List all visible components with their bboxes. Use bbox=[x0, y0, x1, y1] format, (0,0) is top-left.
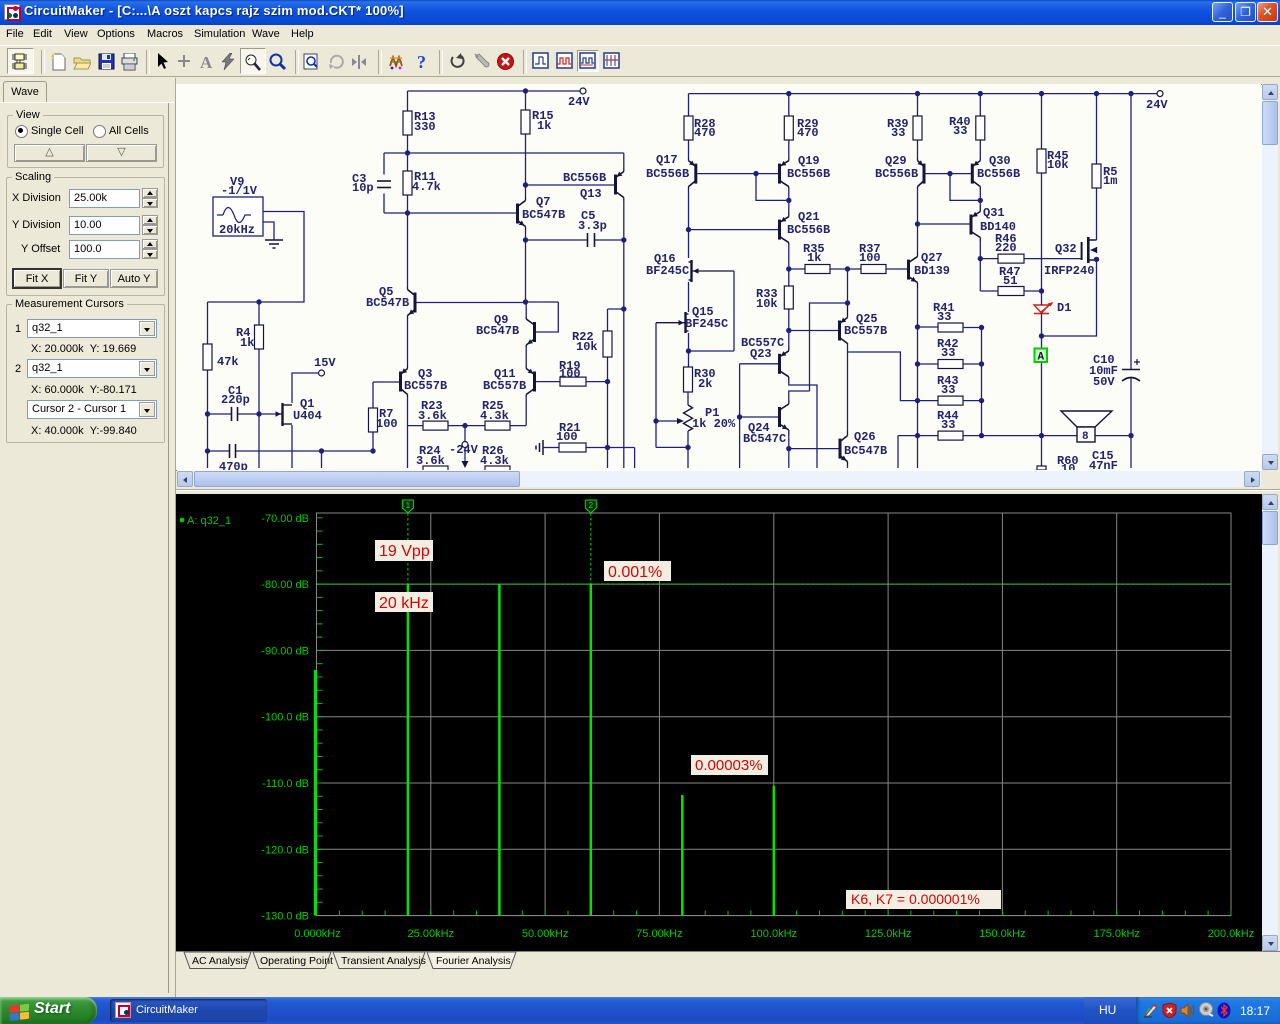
wire bbox=[788, 434, 790, 468]
node bbox=[605, 379, 610, 384]
node bbox=[1039, 288, 1044, 293]
Wave tab bbox=[3, 81, 47, 103]
node bbox=[947, 171, 952, 176]
resistor R30 bbox=[684, 367, 716, 392]
svg-text:2: 2 bbox=[589, 501, 594, 510]
svg-text:20 kHz: 20 kHz bbox=[379, 595, 429, 612]
transistor Q26 bbox=[839, 430, 888, 465]
analysis tabs bbox=[176, 951, 1280, 972]
svg-text:Q23: Q23 bbox=[750, 347, 772, 361]
svg-text:2k: 2k bbox=[698, 377, 712, 391]
node bbox=[370, 448, 375, 453]
transistor Q23 bbox=[741, 336, 789, 380]
title bar bbox=[0, 0, 1280, 25]
ground bbox=[263, 222, 283, 248]
svg-text:-80.00 dB: -80.00 dB bbox=[261, 579, 309, 591]
svg-text:-24V: -24V bbox=[449, 443, 479, 457]
svg-text:33: 33 bbox=[941, 418, 955, 432]
svg-text:BD139: BD139 bbox=[914, 264, 950, 278]
toolbar bbox=[0, 45, 1280, 77]
wire bbox=[656, 447, 688, 468]
svg-text:1k: 1k bbox=[807, 251, 821, 265]
svg-text:Q7: Q7 bbox=[536, 195, 550, 209]
wire bbox=[655, 323, 657, 448]
svg-text:470: 470 bbox=[797, 126, 819, 140]
svg-text:Q13: Q13 bbox=[580, 187, 602, 201]
node bbox=[686, 348, 691, 353]
svg-text:125.0kHz: 125.0kHz bbox=[865, 928, 911, 940]
resistor R5 bbox=[1092, 94, 1117, 240]
node bbox=[1039, 91, 1044, 96]
wire Q26 base bbox=[789, 448, 839, 450]
transistor Q31 bbox=[970, 206, 1017, 241]
wire bbox=[688, 189, 690, 258]
svg-text:BC556B: BC556B bbox=[646, 167, 689, 181]
svg-text:19 Vpp: 19 Vpp bbox=[379, 543, 430, 560]
wire bbox=[607, 382, 609, 448]
resistor R40 bbox=[949, 94, 985, 158]
svg-text:200.0kHz: 200.0kHz bbox=[1208, 928, 1254, 940]
resistor R21 bbox=[556, 421, 635, 468]
svg-text:D1: D1 bbox=[1057, 301, 1071, 315]
transistor Q19 bbox=[778, 154, 830, 189]
svg-text:100: 100 bbox=[556, 430, 578, 444]
wire Q29 base bbox=[926, 173, 972, 175]
wire bbox=[384, 212, 516, 214]
wire bbox=[407, 397, 409, 468]
wire bbox=[847, 343, 849, 431]
node bbox=[1094, 257, 1099, 262]
resistor R15 bbox=[521, 91, 554, 185]
svg-text:1m: 1m bbox=[1103, 174, 1117, 188]
wire bbox=[979, 189, 981, 206]
node bbox=[978, 256, 983, 261]
svg-text:Q31: Q31 bbox=[983, 206, 1005, 220]
node bbox=[786, 266, 791, 271]
svg-text:Transient Analysis: Transient Analysis bbox=[341, 955, 426, 967]
resistor R2 47k bbox=[203, 302, 239, 414]
resistor R26 bbox=[480, 444, 510, 475]
wire bbox=[1130, 378, 1132, 436]
capacitor C10 bbox=[1089, 353, 1140, 389]
node bbox=[978, 198, 983, 203]
wire bbox=[917, 288, 919, 327]
resistor R23 bbox=[408, 399, 466, 430]
svg-text:10k: 10k bbox=[576, 340, 598, 354]
node bbox=[979, 361, 984, 366]
svg-text:470: 470 bbox=[694, 126, 716, 140]
svg-text:50.00kHz: 50.00kHz bbox=[522, 928, 568, 940]
svg-text:0.00003%: 0.00003% bbox=[695, 757, 763, 774]
resistor R33 bbox=[756, 269, 793, 331]
node bbox=[786, 91, 791, 96]
svg-text:Q27: Q27 bbox=[921, 251, 943, 265]
wire bbox=[1042, 262, 1097, 336]
transistor Q5 bbox=[366, 285, 417, 318]
wire bbox=[788, 189, 790, 212]
node bbox=[1128, 433, 1133, 438]
svg-text:100: 100 bbox=[376, 417, 398, 431]
svg-text:BF245C: BF245C bbox=[646, 264, 689, 278]
node bbox=[686, 227, 691, 232]
svg-text:?: ? bbox=[417, 53, 426, 71]
node bbox=[319, 448, 324, 453]
wire bbox=[917, 189, 919, 252]
terminal -24V bbox=[449, 426, 479, 468]
wire bbox=[525, 185, 527, 197]
wire Q24 base bbox=[740, 416, 778, 418]
svg-text:A: A bbox=[1038, 352, 1045, 364]
probe marker A bbox=[1035, 349, 1048, 364]
speaker LS1 bbox=[1061, 411, 1112, 443]
node bbox=[915, 433, 920, 438]
node bbox=[786, 328, 791, 333]
wire bbox=[788, 331, 790, 347]
node bbox=[915, 91, 920, 96]
node bbox=[462, 423, 467, 428]
schematic v scrollbar bbox=[1262, 84, 1278, 470]
svg-text:BC557B: BC557B bbox=[844, 324, 887, 338]
svg-text:100: 100 bbox=[859, 251, 881, 265]
wire bbox=[407, 213, 409, 287]
svg-text:BC557B: BC557B bbox=[483, 379, 526, 393]
wire Q17 base bbox=[698, 173, 779, 175]
wire bbox=[756, 174, 789, 201]
resistor R19 bbox=[559, 359, 608, 386]
wire Q11 base bbox=[536, 381, 560, 383]
transistor Q15 bbox=[656, 305, 728, 333]
node bbox=[979, 433, 984, 438]
svg-text:Q17: Q17 bbox=[656, 153, 678, 167]
schematic area bbox=[176, 84, 1262, 471]
node bbox=[685, 445, 690, 450]
svg-text:51: 51 bbox=[1003, 274, 1017, 288]
node bbox=[205, 411, 210, 416]
svg-text:BC556B: BC556B bbox=[875, 167, 918, 181]
wire bbox=[607, 448, 609, 469]
wire bbox=[950, 174, 980, 201]
wire bbox=[1041, 291, 1043, 436]
resistor R41 bbox=[918, 301, 982, 332]
wire bbox=[208, 414, 293, 468]
svg-text:3.6k: 3.6k bbox=[416, 454, 445, 468]
resistor R39 bbox=[887, 94, 922, 158]
wire bbox=[981, 328, 983, 436]
node bbox=[737, 414, 742, 419]
svg-text:20kHz: 20kHz bbox=[219, 223, 255, 237]
wire bbox=[292, 373, 319, 403]
svg-text:0.000kHz: 0.000kHz bbox=[294, 928, 340, 940]
transistor Q24 bbox=[743, 400, 789, 446]
svg-text:Q26: Q26 bbox=[854, 430, 876, 444]
svg-text:47k: 47k bbox=[217, 355, 239, 369]
node bbox=[621, 306, 626, 311]
svg-text:-120.0 dB: -120.0 dB bbox=[261, 844, 309, 856]
svg-text:BC556B: BC556B bbox=[977, 167, 1020, 181]
svg-text:10k: 10k bbox=[1047, 158, 1069, 172]
wire bbox=[623, 201, 625, 468]
svg-text:4.3k: 4.3k bbox=[480, 409, 509, 423]
svg-text:1k: 1k bbox=[537, 119, 551, 133]
node bbox=[915, 361, 920, 366]
wire bbox=[623, 153, 625, 168]
transistor Q16 bbox=[646, 252, 734, 282]
transistor Q30 bbox=[971, 154, 1020, 189]
resistor R42 bbox=[918, 337, 982, 369]
transistor Q3 bbox=[399, 365, 447, 397]
capacitor C3 bbox=[352, 153, 391, 213]
transistor Q29 bbox=[875, 154, 926, 189]
node bbox=[621, 237, 626, 242]
wire bbox=[407, 318, 409, 365]
node bbox=[653, 418, 658, 423]
svg-text:BC547B: BC547B bbox=[366, 296, 409, 310]
svg-text:24V: 24V bbox=[1146, 98, 1168, 112]
svg-text:75.00kHz: 75.00kHz bbox=[636, 928, 682, 940]
wire bbox=[525, 230, 527, 302]
svg-text:33: 33 bbox=[941, 346, 955, 360]
waveform v scrollbar bbox=[1262, 494, 1278, 951]
wire bbox=[384, 152, 624, 154]
divider groove bbox=[176, 489, 1280, 490]
Scaling groupbox bbox=[6, 177, 165, 296]
svg-text:K6, K7 = 0.000001%: K6, K7 = 0.000001% bbox=[851, 891, 980, 907]
wire bbox=[847, 269, 849, 303]
svg-text:A: A bbox=[200, 53, 213, 71]
svg-text:100.0kHz: 100.0kHz bbox=[751, 928, 797, 940]
node bbox=[1039, 333, 1044, 338]
wire bbox=[789, 391, 810, 400]
svg-text:220: 220 bbox=[995, 241, 1017, 255]
wire bbox=[1024, 290, 1042, 292]
Measurement Cursors groupbox bbox=[6, 304, 165, 443]
svg-text:BC556B: BC556B bbox=[563, 171, 606, 185]
svg-text:Q21: Q21 bbox=[798, 210, 820, 224]
node bbox=[915, 398, 920, 403]
schematic h scrollbar bbox=[177, 471, 1261, 487]
wire bbox=[207, 414, 209, 451]
svg-text:8: 8 bbox=[1082, 431, 1089, 443]
node bbox=[979, 325, 984, 330]
svg-text:Fourier Analysis: Fourier Analysis bbox=[436, 955, 511, 967]
node bbox=[523, 299, 528, 304]
node bbox=[1094, 91, 1099, 96]
svg-text:Operating Point: Operating Point bbox=[260, 955, 333, 967]
svg-text:-130.0 dB: -130.0 dB bbox=[261, 911, 309, 923]
transistor Q25 bbox=[838, 303, 887, 344]
node bbox=[405, 210, 410, 215]
View groupbox bbox=[7, 115, 164, 168]
svg-text:4.3k: 4.3k bbox=[480, 454, 509, 468]
svg-text:BC556B: BC556B bbox=[787, 223, 830, 237]
wire bbox=[608, 308, 624, 310]
wire Q5 base bbox=[417, 302, 526, 304]
wire bbox=[525, 347, 527, 366]
svg-text:10p: 10p bbox=[352, 181, 374, 195]
svg-text:4.7k: 4.7k bbox=[412, 180, 441, 194]
menu bar bbox=[0, 25, 1280, 45]
transistor Q17 bbox=[646, 153, 697, 189]
svg-text:33: 33 bbox=[953, 124, 967, 138]
svg-text:175.0kHz: 175.0kHz bbox=[1093, 928, 1139, 940]
svg-text:-1/1V: -1/1V bbox=[221, 184, 258, 198]
wire bbox=[689, 333, 735, 367]
capacitor C15 bbox=[1089, 449, 1118, 473]
resistor R44 bbox=[937, 409, 963, 440]
svg-text:A: q32_1: A: q32_1 bbox=[187, 515, 231, 527]
resistor R45 bbox=[1037, 94, 1069, 291]
resistor R28 bbox=[684, 94, 716, 158]
svg-text:3.3p: 3.3p bbox=[578, 219, 607, 233]
transistor Q9 bbox=[476, 313, 536, 347]
node bbox=[1039, 433, 1044, 438]
wire 24V rail right bbox=[689, 93, 1158, 95]
node bbox=[256, 299, 261, 304]
svg-text:-90.00 dB: -90.00 dB bbox=[261, 645, 309, 657]
capacitor C5 bbox=[526, 209, 624, 247]
svg-text:33: 33 bbox=[891, 126, 905, 140]
svg-text:Q29: Q29 bbox=[885, 154, 907, 168]
resistor R11 bbox=[403, 153, 441, 213]
node bbox=[605, 445, 610, 450]
transistor Q7 bbox=[516, 195, 565, 230]
wire 24V rail left bbox=[408, 90, 581, 92]
node bbox=[523, 237, 528, 242]
node bbox=[753, 171, 758, 176]
svg-text:BC557B: BC557B bbox=[404, 379, 447, 393]
wire bbox=[789, 380, 817, 468]
resistor R24 bbox=[416, 444, 448, 475]
transistor Q1 bbox=[259, 397, 322, 426]
node bbox=[205, 448, 210, 453]
svg-text:BF245C: BF245C bbox=[685, 317, 728, 331]
transistor Q13 bbox=[563, 168, 624, 201]
wire bbox=[525, 397, 527, 426]
node bbox=[979, 398, 984, 403]
wire bbox=[847, 465, 849, 468]
resistor R43 bbox=[918, 374, 982, 405]
node bbox=[523, 88, 528, 93]
resistor R37 bbox=[830, 242, 886, 274]
wire bbox=[525, 302, 527, 317]
svg-text:100: 100 bbox=[559, 367, 581, 381]
svg-text:1k: 1k bbox=[240, 336, 254, 350]
svg-text:47nF: 47nF bbox=[1089, 459, 1118, 470]
svg-text:24V: 24V bbox=[568, 95, 590, 109]
wire bbox=[788, 245, 790, 269]
wire Q13 base bbox=[526, 184, 615, 186]
wire Q21 base bbox=[689, 229, 779, 231]
resistor R60 bbox=[1037, 454, 1079, 476]
transistor Q11 bbox=[483, 366, 536, 397]
wire bbox=[1130, 94, 1132, 370]
terminal 24V bbox=[1146, 91, 1168, 112]
voltage source V9 bbox=[213, 175, 263, 237]
svg-text:-110.0 dB: -110.0 dB bbox=[262, 778, 309, 790]
capacitor C1 bbox=[208, 384, 260, 421]
wire Q23 base bbox=[740, 364, 778, 468]
wire bbox=[917, 327, 919, 468]
svg-text:Q30: Q30 bbox=[989, 154, 1011, 168]
svg-text:BC547B: BC547B bbox=[844, 444, 887, 458]
node bbox=[978, 91, 983, 96]
wire speaker row bbox=[898, 436, 1131, 468]
svg-text:50V: 50V bbox=[1093, 375, 1115, 389]
terminal 15V bbox=[314, 356, 336, 376]
resistor R4 bbox=[236, 302, 264, 414]
svg-text:BC547B: BC547B bbox=[476, 324, 519, 338]
resistor R22 bbox=[572, 309, 612, 382]
node bbox=[845, 300, 850, 305]
capacitor C2 470p bbox=[208, 444, 322, 474]
wire bbox=[208, 212, 305, 303]
svg-text:10k: 10k bbox=[756, 297, 778, 311]
wire bbox=[810, 303, 848, 391]
resistor R7 bbox=[369, 382, 398, 451]
svg-text:33: 33 bbox=[941, 383, 955, 397]
potentiometer P1 bbox=[656, 392, 736, 447]
svg-text:25.00kHz: 25.00kHz bbox=[408, 928, 454, 940]
wire Q31 base bbox=[918, 223, 970, 225]
svg-text:470p: 470p bbox=[219, 460, 248, 470]
wire bbox=[322, 451, 374, 468]
terminal 24V bbox=[568, 88, 590, 109]
wire Q25 base bbox=[789, 330, 838, 332]
node bbox=[405, 150, 410, 155]
svg-text:1k 20%: 1k 20% bbox=[692, 417, 736, 431]
resistor R47 bbox=[980, 259, 1024, 296]
svg-text:BC547B: BC547B bbox=[522, 208, 565, 222]
left panel bbox=[0, 78, 176, 997]
diode D1 bbox=[1034, 301, 1071, 315]
resistor R29 bbox=[784, 94, 818, 158]
svg-text:-70.00 dB: -70.00 dB bbox=[261, 513, 309, 525]
svg-text:-100.0 dB: -100.0 dB bbox=[261, 712, 309, 724]
transistor Q32 MOSFET bbox=[1044, 237, 1097, 278]
svg-text:0.001%: 0.001% bbox=[608, 564, 662, 581]
resistor R13 bbox=[403, 91, 436, 153]
transistor Q21 bbox=[778, 210, 830, 245]
svg-text:33: 33 bbox=[937, 310, 951, 324]
wire bbox=[1042, 436, 1132, 468]
resistor R46 bbox=[980, 232, 1024, 263]
svg-text:15V: 15V bbox=[314, 356, 336, 370]
node bbox=[786, 198, 791, 203]
wire Q32 gate bbox=[1024, 258, 1082, 260]
node bbox=[1128, 91, 1133, 96]
waveform area bbox=[176, 494, 1262, 951]
wire bbox=[688, 282, 690, 312]
transistor Q27 bbox=[907, 251, 950, 288]
resistor R25 bbox=[465, 399, 526, 430]
svg-text:220p: 220p bbox=[221, 393, 250, 407]
wire bbox=[848, 352, 918, 401]
taskbar bbox=[0, 997, 1280, 1024]
node bbox=[845, 266, 850, 271]
svg-text:BC556B: BC556B bbox=[787, 167, 830, 181]
svg-text:150.0kHz: 150.0kHz bbox=[979, 928, 1025, 940]
wire Q16 gate bbox=[733, 271, 735, 351]
svg-text:IRFP240: IRFP240 bbox=[1044, 264, 1094, 278]
svg-text:10: 10 bbox=[1061, 462, 1075, 470]
svg-text:330: 330 bbox=[414, 120, 436, 134]
ground bbox=[536, 440, 559, 455]
node bbox=[786, 446, 791, 451]
svg-text:BC547C: BC547C bbox=[743, 432, 786, 446]
svg-text:Q19: Q19 bbox=[798, 154, 820, 168]
node bbox=[256, 411, 261, 416]
svg-text:Q32: Q32 bbox=[1055, 242, 1077, 256]
